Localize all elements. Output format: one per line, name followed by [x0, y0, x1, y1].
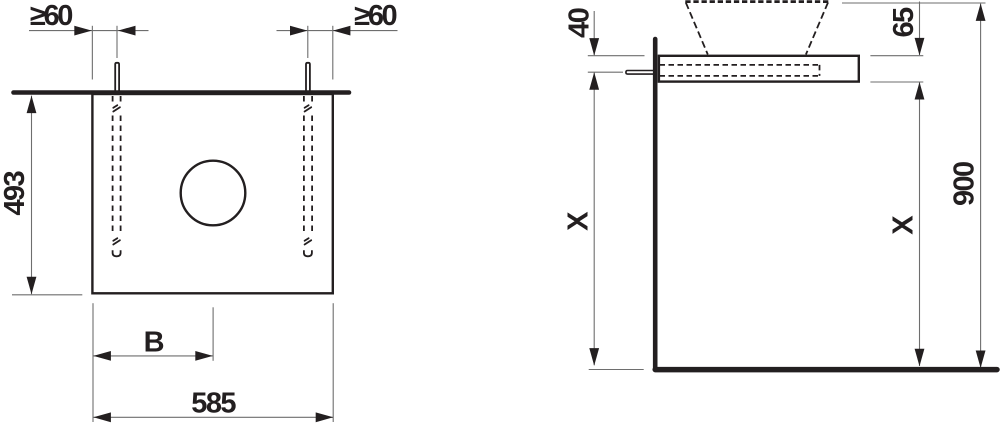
svg-text:585: 585	[191, 387, 236, 419]
svg-text:≥60: ≥60	[354, 0, 396, 32]
svg-text:65: 65	[888, 7, 920, 38]
svg-text:B: B	[144, 326, 164, 358]
svg-text:X: X	[563, 211, 595, 231]
svg-text:900: 900	[949, 162, 981, 206]
svg-text:≥60: ≥60	[30, 0, 72, 32]
svg-text:40: 40	[563, 8, 595, 38]
svg-text:493: 493	[0, 170, 31, 215]
svg-text:X: X	[888, 215, 920, 235]
